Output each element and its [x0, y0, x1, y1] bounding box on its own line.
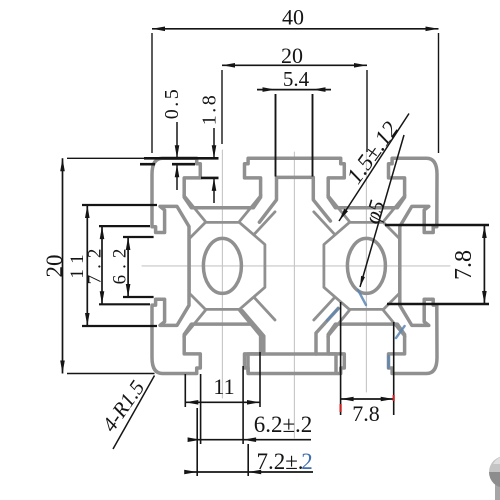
right cell web diagonals — [383, 195, 405, 221]
centerline left bore vertical — [221, 150, 223, 398]
dimension 11 left — [86, 205, 88, 326]
svg-text:6.2: 6.2 — [110, 243, 131, 285]
blue highlight below right bore — [358, 290, 366, 305]
dimension 7.8 right — [483, 225, 485, 304]
svg-text:5.4: 5.4 — [283, 67, 310, 91]
dimension 6.2 +/- .2 bottom — [188, 439, 311, 441]
svg-text:7.2: 7.2 — [85, 243, 106, 285]
svg-text:1.8: 1.8 — [199, 93, 221, 126]
dimension 7.2 left — [101, 226, 103, 304]
centerline horizontal — [142, 265, 450, 267]
left center bore — [203, 238, 241, 293]
dimension 6.2 left — [127, 237, 129, 297]
centerline profile middle vertical — [293, 152, 295, 438]
bottom channel flare right — [316, 308, 338, 354]
svg-text:20: 20 — [281, 43, 303, 68]
svg-text:0.5: 0.5 — [161, 87, 183, 120]
svg-text:2: 2 — [301, 449, 313, 474]
blue highlight right bottom lip — [387, 356, 389, 368]
svg-text:7.8: 7.8 — [451, 250, 477, 280]
red tick marks — [340, 404, 342, 412]
central bottom pocket — [248, 354, 336, 372]
dimension 11 bottom — [185, 401, 260, 403]
dimension 20 top — [222, 64, 367, 66]
dimension 7.8 bottom — [341, 398, 394, 400]
svg-text:11: 11 — [213, 374, 234, 399]
svg-text:6.2±.2: 6.2±.2 — [254, 412, 313, 437]
leader phi 5 — [360, 135, 404, 287]
svg-text:20: 20 — [42, 255, 67, 278]
svg-text:7.2±.: 7.2±. — [256, 449, 303, 474]
svg-text:40: 40 — [282, 5, 304, 30]
right cell cavity octagon — [324, 222, 400, 309]
central top channel — [259, 177, 330, 222]
dimension 5.4 top — [257, 89, 331, 91]
bottom channel flare left — [242, 311, 264, 354]
screw photo fragment bottom-right corner — [489, 456, 500, 500]
profile outer boundary with T-slots — [152, 158, 437, 373]
dimension 20 left — [62, 158, 64, 373]
blue highlight right cell flare — [327, 308, 338, 320]
leader 4-R1.5 — [113, 376, 155, 450]
right center bore — [347, 238, 385, 293]
dimension 7.2 +/- .2 bottom — [185, 471, 313, 473]
dimension 40 top — [152, 28, 439, 30]
leader 1.5 +/- .12 — [339, 114, 409, 222]
blue highlight right bottom slot chamfer — [396, 326, 405, 338]
left cell cavity octagon — [189, 222, 265, 309]
left cell web diagonals — [239, 195, 261, 221]
centerline right bore vertical — [365, 150, 367, 392]
svg-text:7.8: 7.8 — [352, 401, 380, 426]
